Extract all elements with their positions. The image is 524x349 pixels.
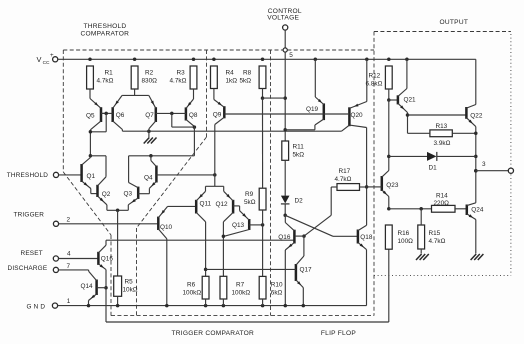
- resistor R9: [259, 188, 266, 210]
- wire Q10 collector to ground bus: [166, 239, 168, 306]
- wire Q21 emitter to Q22 base: [408, 114, 467, 116]
- label R3 4.7k: [170, 70, 187, 85]
- label TRIGGER COMPARATOR: [172, 330, 255, 337]
- wire Q19 collector to R11 node: [285, 125, 315, 130]
- svg-text:R2: R2: [145, 70, 154, 77]
- transistor Q9: [214, 100, 262, 125]
- svg-text:3: 3: [482, 161, 486, 168]
- wire Q21 collector from rail: [406, 59, 408, 88]
- svg-text:10kΩ: 10kΩ: [123, 287, 138, 294]
- wire R15 bottom: [420, 249, 422, 254]
- resistor R16: [385, 225, 392, 249]
- svg-text:1kΩ: 1kΩ: [226, 78, 238, 85]
- diode D2: [281, 196, 290, 216]
- wire Q21 emitter node: [406, 113, 410, 134]
- transistor Q3: [128, 183, 149, 205]
- svg-text:100Ω: 100Ω: [398, 238, 414, 245]
- label Q8: [189, 112, 198, 119]
- label D2: [295, 197, 304, 204]
- wire Q24 emitter: [475, 220, 477, 254]
- label Q7: [145, 112, 154, 119]
- svg-text:Q11: Q11: [200, 201, 212, 208]
- svg-text:TRIGGER: TRIGGER: [14, 211, 45, 218]
- transistor Q14: [89, 271, 107, 300]
- wire Q20 emitter from rail: [366, 59, 368, 101]
- label R7 100k: [232, 281, 251, 296]
- svg-text:220Ω: 220Ω: [434, 200, 450, 207]
- ground at Q7 collector: [144, 129, 157, 144]
- svg-text:Q18: Q18: [360, 234, 373, 241]
- wire pin5 upper: [284, 30, 286, 48]
- transistor Q24: [467, 203, 476, 220]
- svg-text:DISCHARGE: DISCHARGE: [8, 265, 48, 272]
- svg-text:Q2: Q2: [102, 191, 111, 198]
- svg-text:Q8: Q8: [189, 112, 198, 119]
- label Q10: [160, 224, 173, 231]
- resistor R15: [418, 225, 425, 249]
- resistor R8: [259, 66, 266, 89]
- svg-text:+: +: [50, 52, 54, 59]
- wire Q9 collector: [214, 125, 216, 187]
- label Q20: [351, 112, 364, 119]
- label pin 2: [67, 216, 71, 223]
- label pin 1: [67, 298, 71, 305]
- svg-text:Q5: Q5: [86, 112, 95, 119]
- transistor Q7: [149, 95, 156, 128]
- svg-text:R1: R1: [105, 70, 114, 77]
- wire Q4 emitter to Q3 base: [148, 188, 150, 193]
- label Q24: [471, 206, 484, 213]
- resistor R7: [220, 276, 227, 299]
- transistor Q13: [224, 211, 262, 237]
- label Q17: [300, 266, 313, 273]
- svg-text:R13: R13: [436, 123, 448, 130]
- svg-text:G N D: G N D: [27, 303, 46, 310]
- terminal CONTROL VOLTAGE (pin 5): [283, 25, 288, 30]
- transistor Q22: [466, 105, 475, 127]
- label pin 5: [289, 52, 293, 59]
- label R17 4.7k: [335, 168, 352, 183]
- svg-text:100kΩ: 100kΩ: [183, 289, 202, 296]
- svg-text:R7: R7: [236, 281, 245, 288]
- transistor Q16 reset: [98, 245, 106, 269]
- svg-text:3.9kΩ: 3.9kΩ: [434, 140, 451, 147]
- resistor R6: [202, 276, 209, 299]
- svg-text:4: 4: [67, 251, 71, 258]
- node Q13 base / R9 junction: [261, 210, 265, 227]
- svg-text:Q3: Q3: [124, 191, 133, 198]
- wire cross-couple to Q18 base: [285, 215, 357, 236]
- transistor Q1: [82, 158, 91, 189]
- flip flop box right edge / output box left edge: [373, 32, 375, 316]
- resistor R11: [282, 141, 289, 160]
- svg-text:Q9: Q9: [213, 111, 222, 118]
- wire Q14 emitter: [88, 301, 90, 306]
- wire R2 to Q6/Q7 emitter bridge: [122, 89, 149, 95]
- wire Q1 emitter to Q2 base: [91, 189, 97, 194]
- label Q11: [200, 201, 212, 208]
- svg-text:Q17: Q17: [300, 266, 313, 273]
- wire Q11 collector to R6: [204, 222, 208, 276]
- svg-text:Q19: Q19: [306, 106, 319, 113]
- wire ground bus: [58, 250, 367, 308]
- wire Q16ff collector to D2 node: [284, 215, 286, 222]
- node D2 junction: [283, 214, 287, 218]
- resistor R4: [211, 66, 218, 89]
- svg-text:2: 2: [67, 216, 71, 223]
- svg-text:100kΩ: 100kΩ: [232, 289, 251, 296]
- terminal OUTPUT (pin 3): [508, 168, 513, 173]
- svg-text:7: 7: [67, 263, 71, 270]
- transistor Q21: [398, 89, 408, 113]
- svg-text:Q6: Q6: [116, 112, 125, 119]
- label Q22: [470, 112, 483, 119]
- svg-text:Q13: Q13: [232, 222, 245, 229]
- svg-text:Q1: Q1: [87, 173, 96, 180]
- svg-text:VOLTAGE: VOLTAGE: [267, 14, 299, 21]
- label Vcc+: [37, 52, 55, 66]
- svg-text:RESET: RESET: [21, 250, 43, 257]
- svg-text:4.7kΩ: 4.7kΩ: [429, 238, 446, 245]
- wire R11 to D2: [284, 160, 286, 196]
- svg-text:D1: D1: [429, 164, 438, 171]
- wire Q17 emitter: [302, 288, 304, 306]
- wire Q19 emitter from rail: [314, 59, 316, 97]
- svg-text:OUTPUT: OUTPUT: [440, 19, 469, 26]
- wire R3 to Q8: [193, 89, 195, 99]
- label THRESHOLD: [7, 172, 48, 179]
- svg-text:Q20: Q20: [351, 112, 364, 119]
- wire R12 bottom to Q21 base: [387, 89, 398, 102]
- label R8 5k: [240, 70, 252, 85]
- transistor Q5: [90, 99, 106, 130]
- label Q3: [124, 191, 133, 198]
- label THRESHOLD COMPARATOR: [81, 23, 130, 38]
- wire R6 bottom: [205, 299, 207, 306]
- wire Q5 load column: [89, 130, 93, 158]
- svg-text:R9: R9: [245, 191, 254, 198]
- svg-text:Q4: Q4: [144, 175, 153, 182]
- svg-text:Q16: Q16: [278, 234, 291, 241]
- label Q2: [102, 191, 111, 198]
- label Q23: [386, 182, 399, 189]
- wire right load tie: [129, 154, 195, 182]
- label R14 220: [434, 192, 450, 207]
- label Q6: [116, 112, 125, 119]
- wire Q10 emitter to Q11 base: [168, 205, 196, 207]
- wire reset line: [106, 239, 294, 241]
- label Q14: [81, 283, 94, 290]
- svg-text:6kΩ: 6kΩ: [271, 289, 283, 296]
- svg-text:TRIGGER COMPARATOR: TRIGGER COMPARATOR: [172, 330, 255, 337]
- svg-text:D2: D2: [295, 197, 304, 204]
- label R11 5k: [293, 144, 305, 159]
- svg-text:Q14: Q14: [81, 283, 94, 290]
- svg-text:Q7: Q7: [145, 112, 154, 119]
- label GND: [27, 303, 46, 310]
- wire Q20 collector to Q18: [365, 128, 369, 226]
- diode D1: [427, 152, 476, 161]
- terminal DISCHARGE (pin 7): [53, 267, 58, 272]
- label R9 5k: [244, 191, 256, 206]
- flip flop box left edge: [270, 50, 272, 316]
- node output junction: [474, 169, 478, 173]
- wire output to pin 3: [476, 170, 509, 172]
- transistor Q23: [367, 171, 389, 197]
- threshold comparator box (dashed outline with funnel): [63, 50, 374, 316]
- label Q16 flip-flop: [278, 234, 291, 241]
- wire Q23 emitter node: [387, 197, 391, 211]
- terminal RESET (pin 4): [53, 256, 58, 261]
- label Q21: [404, 96, 417, 103]
- label R5 10k: [123, 279, 138, 294]
- label R6 100k: [183, 281, 202, 296]
- resistor R1: [87, 66, 94, 89]
- ground at R15: [416, 254, 429, 260]
- wire Q16 reset emitter run: [104, 249, 389, 322]
- svg-text:R17: R17: [339, 168, 351, 175]
- label R1 4.7k: [97, 70, 114, 85]
- transistor Q16 flip-flop: [285, 223, 304, 251]
- resistor R12: [385, 66, 392, 89]
- svg-text:THRESHOLD: THRESHOLD: [7, 172, 48, 179]
- svg-text:R6: R6: [187, 281, 196, 288]
- svg-text:Q16: Q16: [101, 256, 114, 263]
- wire Q22 emitter column: [474, 127, 478, 203]
- label R10 6k: [271, 281, 283, 296]
- wire Q16 reset collector: [105, 240, 107, 245]
- wire Q12/Q13 collectors to R7: [222, 222, 226, 276]
- wire Q13 emitter to Q12 base: [239, 206, 241, 211]
- wire Q2/Q3 emitter bridge: [107, 205, 128, 212]
- transistor Q20: [324, 102, 367, 132]
- resistor R13: [430, 130, 452, 137]
- wire R4 to Q9: [213, 89, 215, 100]
- label pin 7: [67, 263, 71, 270]
- ground at Q24 emitter: [471, 254, 484, 260]
- wire Q23 emitter to R14: [389, 207, 432, 211]
- wire Q11/Q12 emitter bridge: [206, 186, 224, 191]
- svg-text:V: V: [37, 55, 42, 64]
- wire R1 to Q5: [89, 89, 91, 99]
- label FLIP FLOP: [321, 330, 356, 337]
- wire R14 to Q24 base: [455, 208, 466, 210]
- label R13 3.9k: [434, 123, 451, 147]
- terminal Vcc (pin 8): [53, 57, 58, 62]
- wire Vcc rail: [58, 58, 476, 105]
- wire reset to Q16 base: [59, 258, 99, 260]
- label R4 1k: [226, 70, 238, 85]
- trigger comparator / flip-flop box bottom edge: [111, 315, 374, 317]
- svg-text:R16: R16: [398, 230, 410, 237]
- transistor Q17: [206, 256, 304, 288]
- transistor Q2: [98, 177, 107, 205]
- svg-text:Q23: Q23: [386, 182, 399, 189]
- wire R12 column to D1: [387, 100, 391, 171]
- wire D1 anode: [389, 155, 427, 157]
- transistor Q6: [101, 95, 122, 129]
- transistor Q12: [223, 191, 239, 222]
- resistor R5: [114, 276, 122, 296]
- label R16 100: [398, 230, 414, 245]
- label pin 4: [67, 251, 71, 258]
- wire threshold to Q1 base: [59, 174, 82, 176]
- wire cross-couple to Q16 base node: [302, 215, 331, 238]
- resistor R10: [259, 276, 266, 299]
- wire Q16ff emitter to ground bus: [284, 250, 286, 306]
- label R12 6.8k: [366, 73, 383, 88]
- label D1: [429, 164, 438, 171]
- svg-text:R15: R15: [429, 230, 441, 237]
- svg-text:5kΩ: 5kΩ: [240, 78, 252, 85]
- wire R13 left leg: [408, 132, 430, 134]
- label DISCHARGE: [8, 265, 48, 272]
- wire R10 bottom: [262, 299, 264, 306]
- wire pin5 column: [263, 52, 287, 141]
- svg-text:CC: CC: [43, 60, 50, 66]
- svg-text:5kΩ: 5kΩ: [244, 199, 256, 206]
- label Q19: [306, 106, 319, 113]
- resistor R3: [190, 66, 197, 89]
- label Q1: [87, 173, 96, 180]
- terminal THRESHOLD (pin 6): [53, 172, 58, 177]
- resistor R2: [131, 66, 138, 89]
- svg-text:R5: R5: [125, 279, 134, 286]
- wire R7 bottom: [222, 299, 224, 306]
- wire discharge to Q14 collector: [59, 270, 89, 271]
- svg-text:4.7kΩ: 4.7kΩ: [170, 78, 187, 85]
- label Q12: [216, 201, 229, 208]
- svg-text:4.7kΩ: 4.7kΩ: [335, 176, 352, 183]
- svg-text:5kΩ: 5kΩ: [293, 152, 305, 159]
- svg-text:R4: R4: [226, 70, 235, 77]
- label OUTPUT: [440, 19, 469, 26]
- label CONTROL VOLTAGE: [267, 8, 302, 21]
- label Q5: [86, 112, 95, 119]
- label pin 3: [482, 161, 486, 168]
- output box right edge (dotted): [510, 34, 512, 276]
- svg-text:THRESHOLD: THRESHOLD: [84, 23, 127, 30]
- svg-text:4.7kΩ: 4.7kΩ: [97, 78, 114, 85]
- wire R5 to ground bus: [117, 296, 119, 305]
- svg-text:1: 1: [67, 298, 71, 305]
- svg-text:R12: R12: [369, 73, 381, 80]
- wire R13 right leg: [452, 132, 476, 134]
- svg-text:Q12: Q12: [216, 201, 229, 208]
- svg-text:R8: R8: [243, 70, 252, 77]
- label Q13: [232, 222, 245, 229]
- svg-text:Q21: Q21: [404, 96, 417, 103]
- svg-text:6.8kΩ: 6.8kΩ: [366, 81, 383, 88]
- svg-text:830Ω: 830Ω: [142, 78, 158, 85]
- wire R17 right to node: [360, 186, 367, 188]
- wire Q7/Q8 base tie: [170, 112, 194, 127]
- svg-text:5: 5: [289, 52, 293, 59]
- resistor R14: [432, 205, 456, 212]
- wire R10 column: [262, 225, 264, 277]
- svg-text:R10: R10: [271, 281, 283, 288]
- terminal TRIGGER (pin 2): [53, 221, 58, 226]
- terminal GND (pin 1): [52, 303, 57, 308]
- svg-text:FLIP FLOP: FLIP FLOP: [321, 330, 356, 337]
- svg-text:Q10: Q10: [160, 224, 173, 231]
- node Q4 base junction: [213, 173, 217, 177]
- transistor Q18: [358, 225, 367, 249]
- output box bottom edge (dotted): [374, 275, 511, 277]
- svg-text:R14: R14: [436, 192, 448, 199]
- wire R17 left leg: [331, 187, 337, 215]
- transistor Q4: [149, 161, 214, 189]
- label Q9: [213, 111, 222, 118]
- wire trigger to Q10 base: [59, 223, 158, 225]
- wire R9 top column: [261, 89, 265, 189]
- wire Q5/Q6 base tie: [90, 112, 108, 132]
- svg-text:R3: R3: [177, 70, 186, 77]
- wire Q17 collector: [303, 236, 305, 256]
- resistor R17: [337, 184, 360, 191]
- svg-text:Q24: Q24: [471, 206, 484, 213]
- label R15 4.7k: [429, 230, 446, 245]
- transistor Q10: [158, 206, 167, 238]
- transistor Q19: [262, 97, 324, 125]
- wire tail to R5: [117, 210, 119, 276]
- label R2 830: [142, 70, 158, 85]
- label TRIGGER: [14, 211, 45, 218]
- label Q18: [360, 234, 373, 241]
- label RESET: [21, 250, 43, 257]
- svg-text:COMPARATOR: COMPARATOR: [81, 30, 130, 37]
- label Q4: [144, 175, 153, 182]
- node Q8 collector junction: [193, 125, 197, 155]
- label Q16 reset: [101, 256, 114, 263]
- output box top edge: [374, 31, 511, 33]
- svg-text:R11: R11: [293, 144, 305, 151]
- wire comparator bus: [122, 130, 341, 132]
- transistor Q8: [156, 99, 195, 127]
- transistor Q11: [196, 191, 205, 222]
- wire R15 top: [420, 209, 422, 225]
- svg-text:Q22: Q22: [470, 112, 483, 119]
- wire left load tie: [90, 156, 106, 177]
- node pin 5 on box edge: [283, 48, 287, 52]
